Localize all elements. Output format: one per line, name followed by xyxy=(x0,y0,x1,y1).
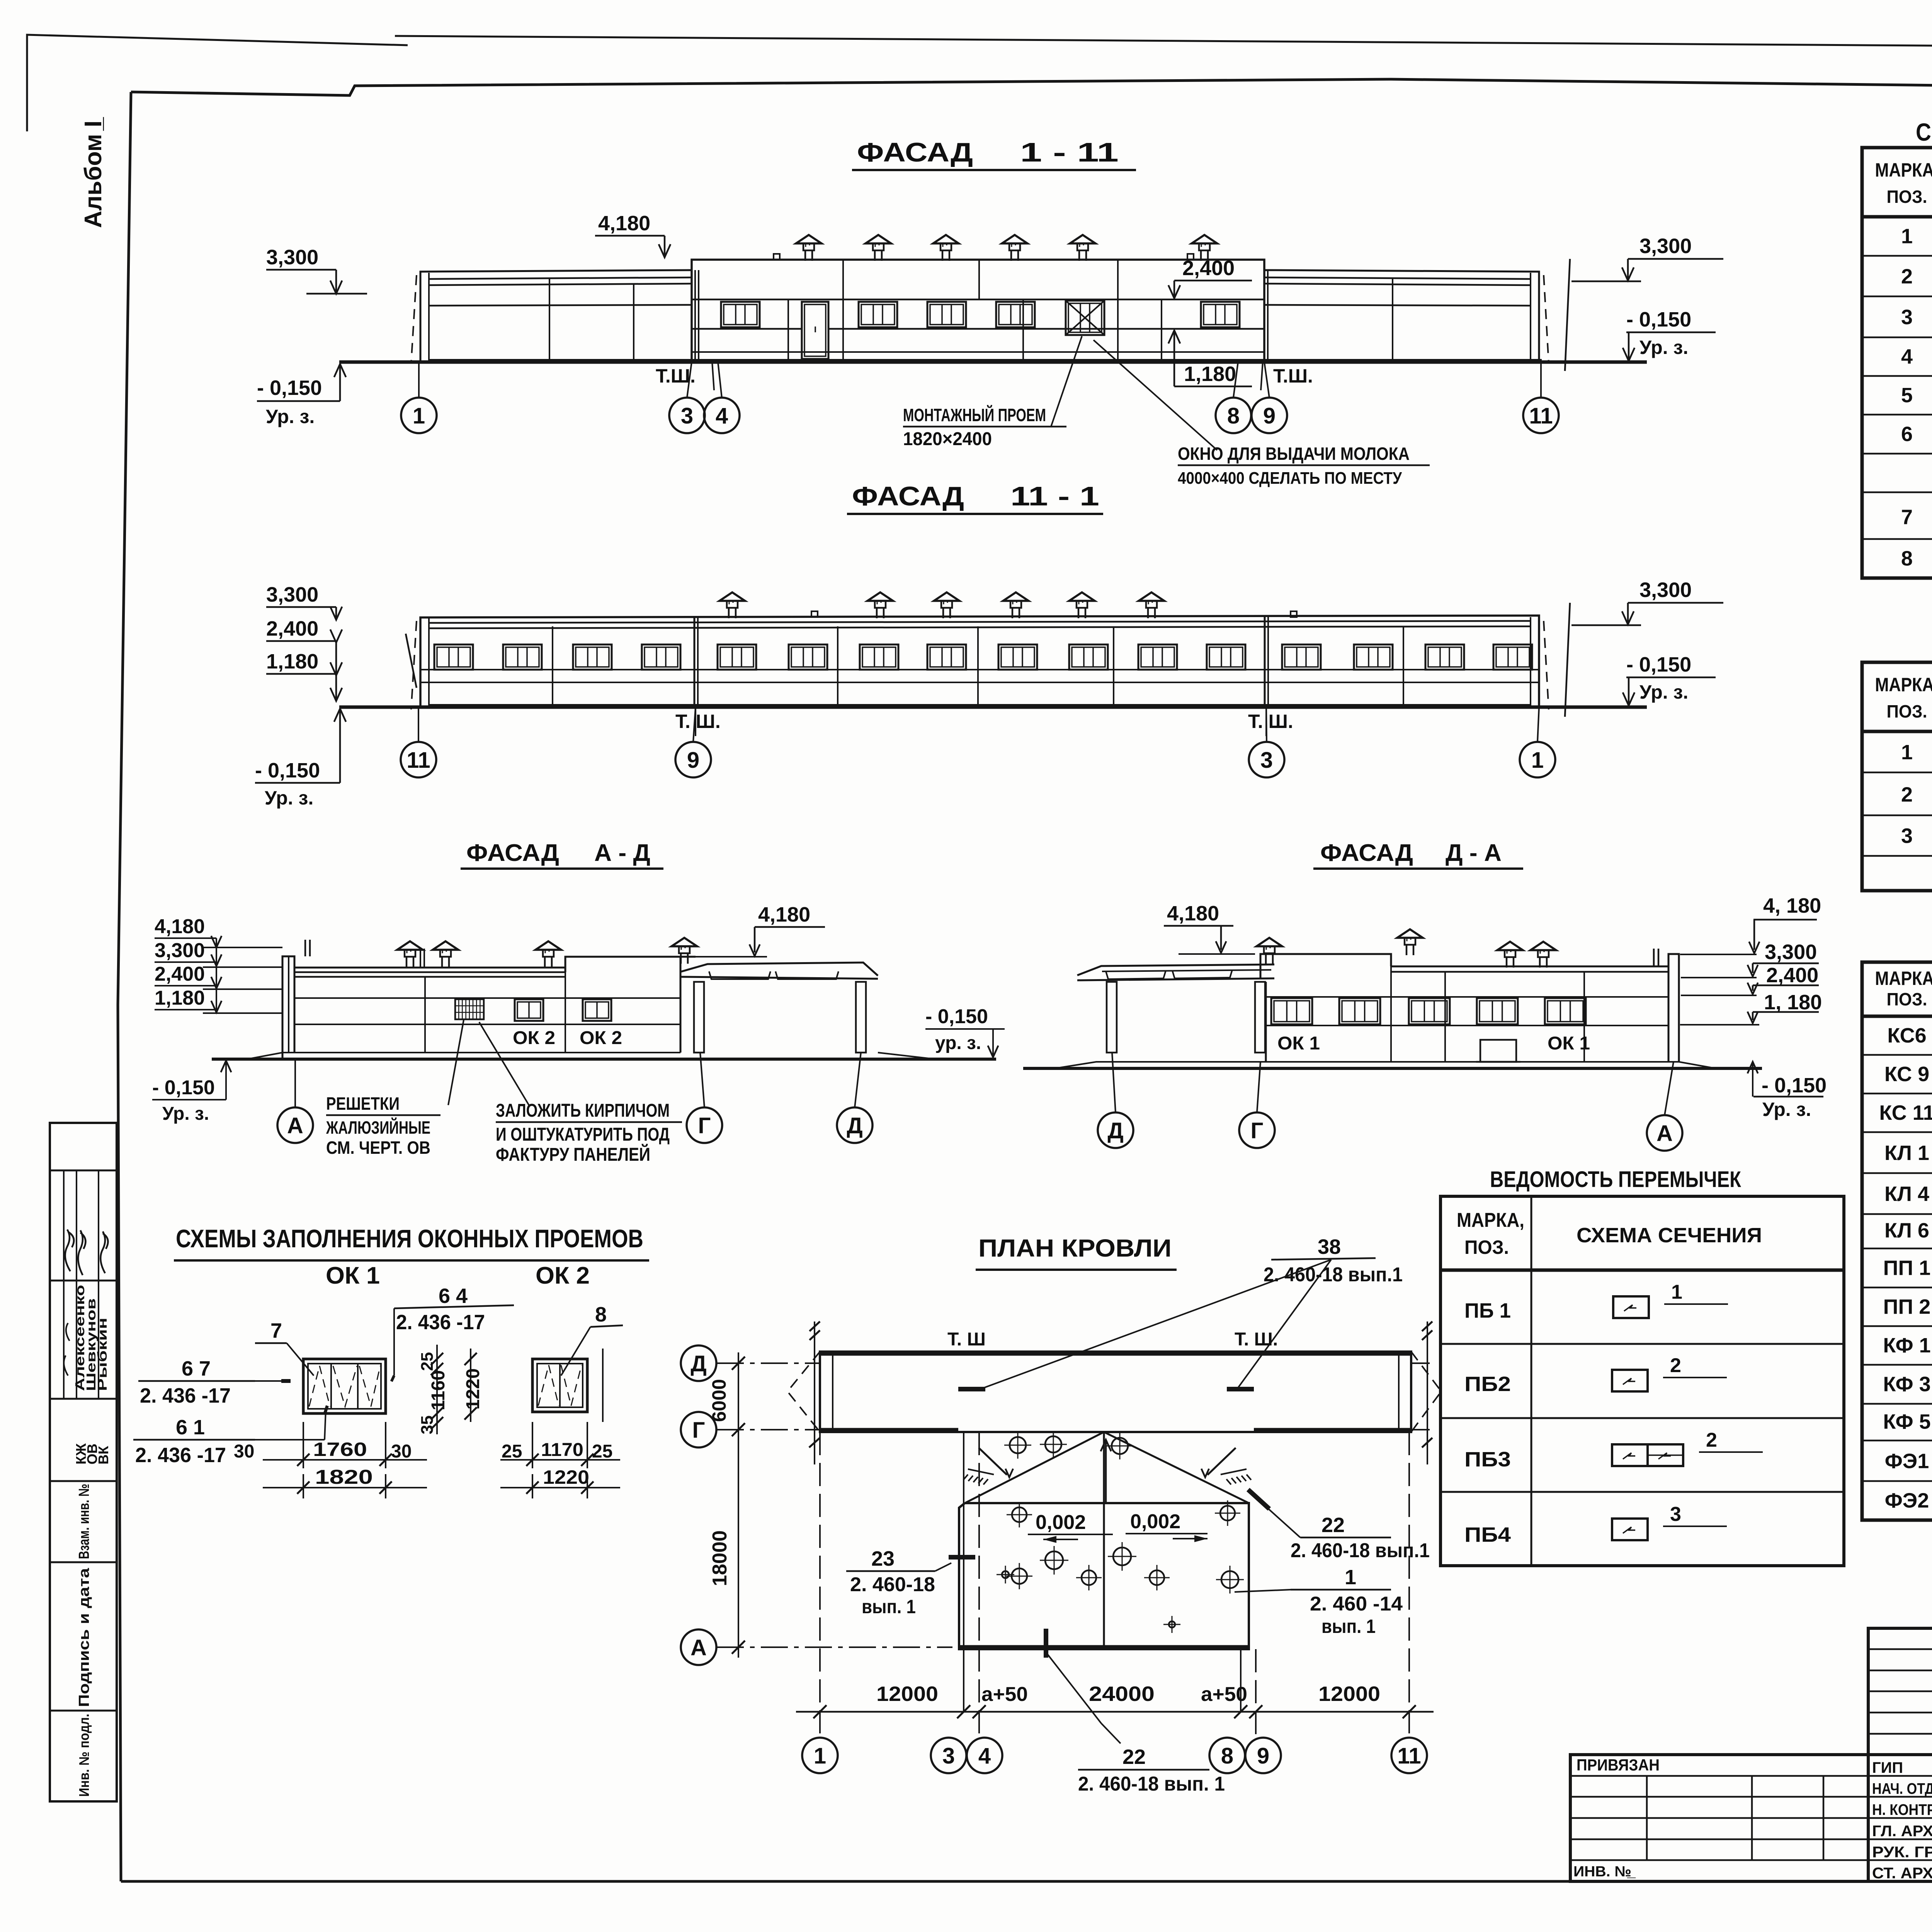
axis mark 11 xyxy=(1523,398,1559,433)
svg-text:А: А xyxy=(690,1635,707,1660)
svg-text:МАРКА,: МАРКА, xyxy=(1457,1209,1524,1231)
svg-text:Ур. з.: Ур. з. xyxy=(1762,1099,1811,1120)
facade A-D title underline xyxy=(461,867,663,870)
facade 1-11 central block sill line xyxy=(692,328,802,330)
svg-text:1: 1 xyxy=(1531,748,1544,773)
facade 11-1 window row xyxy=(434,645,473,670)
scheme OK2 opening marks xyxy=(538,1365,559,1406)
axis mark Д xyxy=(837,1107,872,1143)
svg-text:22: 22 xyxy=(1321,1514,1345,1537)
roof vent xyxy=(1200,250,1202,261)
facade 1-11 expansion joint lines (T.Sh.) xyxy=(694,270,696,362)
svg-text:Д: Д xyxy=(847,1113,862,1138)
svg-text:3: 3 xyxy=(942,1743,955,1769)
svg-text:СТ. АРХ.: СТ. АРХ. xyxy=(1872,1865,1932,1882)
svg-text:КС6: КС6 xyxy=(1887,1024,1926,1047)
svg-text:Д - А: Д - А xyxy=(1446,840,1502,866)
axis mark Г xyxy=(1239,1112,1275,1148)
svg-text:9: 9 xyxy=(1257,1743,1269,1769)
svg-text:3: 3 xyxy=(1670,1503,1681,1526)
svg-text:- 0,150: - 0,150 xyxy=(1626,308,1691,331)
facade 1-11 ground line xyxy=(339,361,1647,364)
facade A-D canopy left post xyxy=(694,982,704,1053)
svg-text:Г: Г xyxy=(692,1418,705,1443)
svg-text:1160: 1160 xyxy=(428,1370,449,1410)
facade A-D window OK2 no.1 xyxy=(515,999,543,1021)
scheme OK1 dim 1820 xyxy=(263,1487,427,1488)
facade A-D taller central part xyxy=(565,957,696,972)
svg-text:a+50: a+50 xyxy=(981,1683,1028,1706)
svg-text:А: А xyxy=(287,1113,303,1138)
svg-text:2: 2 xyxy=(1901,783,1913,806)
svg-text:Н. КОНТР.: Н. КОНТР. xyxy=(1872,1801,1932,1818)
svg-text:18000: 18000 xyxy=(709,1530,731,1586)
svg-text:ПБ4: ПБ4 xyxy=(1464,1523,1511,1546)
facade 1-11 central block panel joints xyxy=(842,260,844,360)
svg-text:6 4: 6 4 xyxy=(439,1284,468,1308)
svg-text:0,002: 0,002 xyxy=(1130,1510,1180,1533)
svg-text:4, 180: 4, 180 xyxy=(1763,894,1821,917)
scheme OK1 vertical dim chain 25/1160/35 xyxy=(436,1345,438,1434)
svg-text:1,180: 1,180 xyxy=(266,650,318,673)
svg-text:1170: 1170 xyxy=(541,1440,583,1460)
svg-text:ФЭ1: ФЭ1 xyxy=(1885,1449,1929,1473)
facade A-D wall joints xyxy=(294,997,680,999)
svg-text:4,180: 4,180 xyxy=(758,903,810,926)
facade A-D thin pipe stub xyxy=(420,949,421,967)
roof vent xyxy=(874,250,876,261)
svg-text:ФАСАД: ФАСАД xyxy=(466,840,559,866)
svg-text:ПЛАН КРОВЛИ: ПЛАН КРОВЛИ xyxy=(978,1234,1172,1262)
roof vent xyxy=(544,957,546,967)
svg-text:3: 3 xyxy=(1901,824,1913,847)
facade 1-11 central block lintel line xyxy=(692,299,1264,301)
table header row xyxy=(1862,1015,1932,1018)
roof plan drain hatch left xyxy=(979,1448,1007,1475)
svg-text:А - Д: А - Д xyxy=(594,840,650,866)
scheme OK1 opening marks xyxy=(309,1366,330,1406)
roof plan upper strip left gable (dashed) xyxy=(787,1352,820,1432)
svg-text:30: 30 xyxy=(234,1441,254,1462)
table header row xyxy=(1862,215,1932,219)
scheme OK2 vertical dim line xyxy=(602,1349,604,1422)
roof stub (facade 11-1) xyxy=(811,611,818,617)
svg-text:2,400: 2,400 xyxy=(266,617,318,640)
svg-text:24000: 24000 xyxy=(1089,1682,1155,1706)
scheme OK2 window box xyxy=(532,1359,587,1412)
svg-text:2. 460-18 вып. 1: 2. 460-18 вып. 1 xyxy=(1078,1773,1225,1795)
axis leader lines (facade 1-11) xyxy=(418,362,420,398)
svg-text:1220: 1220 xyxy=(543,1466,589,1488)
svg-text:8: 8 xyxy=(1221,1743,1233,1769)
roof vent xyxy=(406,957,408,967)
facade 1-11 central block outline xyxy=(692,260,1264,362)
facade A-D louver grille xyxy=(455,999,484,1019)
scheme OK2 dim 1220 xyxy=(500,1487,620,1488)
facade 1-11 central block base joint xyxy=(692,351,1264,353)
svg-text:МОНТАЖНЫЙ ПРОЕМ: МОНТАЖНЫЙ ПРОЕМ xyxy=(903,405,1046,425)
lintel schedule header separator xyxy=(1440,1269,1844,1272)
axis mark А xyxy=(277,1107,313,1143)
svg-text:1,180: 1,180 xyxy=(155,987,205,1009)
roof vent xyxy=(1010,250,1012,261)
svg-text:ОК 2: ОК 2 xyxy=(536,1262,590,1289)
facade 1-11 mounting opening window with cross xyxy=(1066,301,1104,335)
svg-text:ЖАЛЮЗИЙНЫЕ: ЖАЛЮЗИЙНЫЕ xyxy=(326,1117,430,1138)
svg-text:Ур. з.: Ур. з. xyxy=(265,787,313,809)
svg-text:2,400: 2,400 xyxy=(1766,964,1818,987)
svg-text:Г: Г xyxy=(1251,1118,1264,1143)
lintel schedule table frame xyxy=(1440,1196,1844,1566)
svg-text:НАЧ. ОТД.: НАЧ. ОТД. xyxy=(1872,1781,1932,1798)
svg-text:9: 9 xyxy=(1263,403,1276,429)
svg-text:6 7: 6 7 xyxy=(182,1357,211,1380)
svg-text:6 1: 6 1 xyxy=(176,1416,205,1439)
axis mark 3 xyxy=(669,398,705,433)
svg-text:38: 38 xyxy=(1318,1235,1341,1259)
svg-text:А: А xyxy=(1656,1121,1673,1146)
facade A-D ground line xyxy=(212,1058,996,1061)
svg-text:Рыбкин: Рыбкин xyxy=(95,1318,109,1391)
roof plan axis А dash-dot line xyxy=(717,1646,952,1648)
svg-text:22: 22 xyxy=(1122,1745,1146,1769)
axis mark 9 xyxy=(1245,1738,1281,1773)
facade 11-1 building outline xyxy=(420,616,1539,707)
svg-text:Ур. з.: Ур. з. xyxy=(1639,681,1688,703)
roof stub left xyxy=(774,254,780,260)
svg-text:8: 8 xyxy=(1901,547,1913,570)
axis mark Г xyxy=(687,1107,722,1143)
facade D-A small stack right xyxy=(1653,949,1655,966)
roof stub right xyxy=(1187,254,1194,260)
facade D-A canopy left post xyxy=(1107,982,1117,1053)
table rows xyxy=(1862,1054,1932,1056)
facade D-A canopy roof slab xyxy=(1077,964,1274,975)
facade 1-11 right wing corner break line xyxy=(1544,275,1549,363)
axis mark 8 xyxy=(1209,1738,1245,1773)
svg-text:КС 9: КС 9 xyxy=(1884,1063,1929,1086)
facade D-A right wall column xyxy=(1668,954,1679,1062)
roof vent xyxy=(1265,953,1267,964)
svg-text:11: 11 xyxy=(406,748,430,773)
window schemes title underline xyxy=(174,1259,649,1262)
sheet outer border top-left segment xyxy=(27,35,408,131)
svg-text:МАРКА,: МАРКА, xyxy=(1875,968,1932,989)
svg-text:6: 6 xyxy=(1901,423,1913,446)
svg-text:Ур. з.: Ур. з. xyxy=(266,406,315,427)
svg-text:1: 1 xyxy=(1901,741,1913,764)
svg-text:4,180: 4,180 xyxy=(1167,902,1219,925)
svg-text:ВК: ВК xyxy=(95,1446,111,1464)
svg-text:Ур. з.: Ур. з. xyxy=(162,1104,209,1124)
svg-text:КЛ 4: КЛ 4 xyxy=(1884,1182,1929,1206)
svg-text:МАРКА,: МАРКА, xyxy=(1875,674,1932,696)
axis leaders (facade A-D) xyxy=(294,1059,296,1107)
facade A-D window OK2 no.2 xyxy=(583,999,611,1021)
roof plan slope arrow up xyxy=(1105,1441,1107,1503)
svg-text:Подпись и дата: Подпись и дата xyxy=(76,1568,92,1707)
table rows xyxy=(1862,255,1932,257)
svg-text:3: 3 xyxy=(681,403,693,429)
svg-text:Альбом I̲: Альбом I̲ xyxy=(80,117,107,228)
facade D-A windows OK1 xyxy=(1271,998,1312,1024)
roof vent xyxy=(1012,608,1014,618)
axis mark 3 xyxy=(1249,742,1284,777)
svg-text:3,300: 3,300 xyxy=(1639,578,1692,602)
axis mark 11 xyxy=(1391,1738,1427,1773)
svg-text:ур. з.: ур. з. xyxy=(935,1033,981,1053)
svg-text:5: 5 xyxy=(1901,384,1913,407)
axis mark А xyxy=(681,1629,716,1665)
roof plan drain hatch right xyxy=(1207,1448,1236,1475)
svg-text:РЕШЕТКИ: РЕШЕТКИ xyxy=(326,1094,400,1114)
svg-text:11: 11 xyxy=(1529,403,1553,429)
svg-text:ФЭ2: ФЭ2 xyxy=(1885,1489,1929,1512)
svg-text:ОК 1: ОК 1 xyxy=(326,1262,380,1289)
svg-text:- 0,150: - 0,150 xyxy=(1762,1074,1827,1097)
svg-text:Д: Д xyxy=(1107,1118,1123,1143)
svg-text:ОК 2: ОК 2 xyxy=(513,1028,555,1048)
facade D-A title underline xyxy=(1313,867,1523,870)
svg-text:ГЛ. АРХ.: ГЛ. АРХ. xyxy=(1872,1823,1932,1840)
svg-text:СХЕМЫ ЗАПОЛНЕНИЯ ОКОННЫХ ПРОЕМ: СХЕМЫ ЗАПОЛНЕНИЯ ОКОННЫХ ПРОЕМОВ xyxy=(176,1224,643,1253)
svg-text:2. 460 -14: 2. 460 -14 xyxy=(1310,1593,1403,1615)
svg-text:- 0,150: - 0,150 xyxy=(1626,653,1691,676)
left flat table (Привязан) xyxy=(1570,1755,1868,1881)
axis mark 3 xyxy=(931,1738,966,1773)
drawing frame bottom edge xyxy=(121,1880,1932,1883)
facade A-D canopy roof slab xyxy=(680,963,878,976)
scheme OK2 horizontal dims 25/1170/25 xyxy=(532,1422,533,1468)
svg-text:2,400: 2,400 xyxy=(1182,257,1235,280)
facade D-A building body xyxy=(1265,982,1267,1062)
svg-text:1: 1 xyxy=(413,403,425,429)
svg-text:12000: 12000 xyxy=(1318,1682,1380,1706)
svg-text:Взам. инв. №: Взам. инв. № xyxy=(76,1484,92,1559)
facade 1-11 left wing panel joints xyxy=(549,277,550,360)
roof vent xyxy=(942,608,944,618)
svg-text:ЗАЛОЖИТЬ КИРПИЧОМ: ЗАЛОЖИТЬ КИРПИЧОМ xyxy=(496,1100,670,1121)
svg-text:Г: Г xyxy=(698,1113,711,1138)
facade 1-11 right wing outline xyxy=(1264,270,1539,362)
svg-text:7: 7 xyxy=(270,1319,282,1342)
facade 1-11 window OK1 no.3 xyxy=(927,302,966,327)
svg-text:25: 25 xyxy=(502,1441,522,1462)
facade D-A canopy right post xyxy=(1255,982,1265,1053)
svg-text:ПРИВЯЗАН: ПРИВЯЗАН xyxy=(1577,1756,1660,1774)
facade 1-11 door block xyxy=(802,302,828,359)
svg-text:ПБ 1: ПБ 1 xyxy=(1464,1299,1511,1322)
roof vent xyxy=(441,957,443,967)
roof vent xyxy=(1147,608,1149,618)
svg-text:Т. Ш: Т. Ш xyxy=(947,1329,986,1350)
roof plan central block outline xyxy=(959,1503,1249,1649)
svg-text:Т.Ш.: Т.Ш. xyxy=(1273,365,1313,387)
roof plan upper strip outline xyxy=(820,1352,1411,1432)
roof vent xyxy=(1078,250,1080,261)
svg-text:2,400: 2,400 xyxy=(155,963,205,985)
roof plan valley ticks xyxy=(958,1387,985,1391)
svg-text:1,180: 1,180 xyxy=(1184,362,1236,386)
svg-text:2: 2 xyxy=(1706,1429,1717,1451)
roof plan bottom dimension line xyxy=(796,1711,1434,1713)
svg-text:3: 3 xyxy=(1901,306,1913,329)
roof vent xyxy=(1506,957,1508,968)
axis mark 8 xyxy=(1216,398,1251,433)
svg-text:3: 3 xyxy=(1260,748,1273,773)
roof plan vertical dim line 6000/18000 xyxy=(738,1352,739,1658)
svg-text:- 0,150: - 0,150 xyxy=(152,1077,215,1099)
facade A-D canopy right post xyxy=(856,982,866,1053)
table rows xyxy=(1862,772,1932,774)
axis mark 1 xyxy=(1520,742,1555,777)
lintel schedule column divider xyxy=(1531,1196,1532,1566)
svg-text:1220: 1220 xyxy=(463,1368,483,1410)
axis mark 11 xyxy=(401,742,436,777)
svg-text:25: 25 xyxy=(592,1441,612,1462)
facade 1-11 left wing corner break line xyxy=(411,275,417,363)
svg-text:4000×400 СДЕЛАТЬ ПО МЕСТУ: 4000×400 СДЕЛАТЬ ПО МЕСТУ xyxy=(1178,469,1402,488)
facade D-A ground line xyxy=(1023,1067,1762,1070)
roof vent xyxy=(942,250,944,261)
svg-text:1: 1 xyxy=(1345,1566,1356,1589)
svg-text:3,300: 3,300 xyxy=(1639,235,1692,258)
axis leaders (facade D-A) xyxy=(1112,1053,1116,1112)
svg-text:ПП 2: ПП 2 xyxy=(1883,1295,1931,1318)
facade D-A wall joints xyxy=(1266,996,1668,998)
svg-text:Инв. № подл.: Инв. № подл. xyxy=(76,1714,92,1797)
facade 1-11 title underline xyxy=(852,169,1136,171)
axis mark 4 xyxy=(704,398,740,433)
svg-text:СМ. ЧЕРТ. ОВ: СМ. ЧЕРТ. ОВ xyxy=(326,1138,430,1158)
roof vent xyxy=(1539,957,1541,968)
svg-text:Т. Ш.: Т. Ш. xyxy=(1248,711,1293,732)
svg-text:КЛ 6: КЛ 6 xyxy=(1884,1219,1929,1242)
svg-text:3,300: 3,300 xyxy=(266,583,318,606)
svg-text:И ОШТУКАТУРИТЬ ПОД: И ОШТУКАТУРИТЬ ПОД xyxy=(496,1124,670,1145)
facade D-A door with stoop xyxy=(1480,1040,1516,1062)
table frame xyxy=(1862,962,1932,1520)
svg-text:3,300: 3,300 xyxy=(155,939,205,962)
axis mark 1 xyxy=(802,1738,838,1773)
axis leaders (facade 11-1) xyxy=(418,707,419,742)
facade A-D small stack on parapet xyxy=(304,940,306,956)
svg-text:СХЕМА СЕЧЕНИЯ: СХЕМА СЕЧЕНИЯ xyxy=(1577,1224,1762,1247)
facade A-D left wall column xyxy=(282,956,294,1059)
axis mark Д xyxy=(681,1345,716,1381)
svg-text:1820: 1820 xyxy=(315,1466,373,1488)
svg-text:ИНВ. №̲: ИНВ. №̲ xyxy=(1573,1864,1636,1880)
facade 1-11 window OK1 no.2 xyxy=(859,302,897,327)
scheme OK1 window box xyxy=(303,1359,386,1413)
svg-text:МАРКА,: МАРКА, xyxy=(1875,159,1932,181)
roof plan top break marks xyxy=(810,1321,820,1331)
dim stack right: -0,150 Ур.З. xyxy=(1748,1062,1758,1073)
roof plan axis extension lines xyxy=(819,1432,821,1738)
roof plan vent circles xyxy=(1010,1437,1026,1453)
facade 1-11 window OK1 no.1 xyxy=(721,302,760,327)
facade 1-11 left wing outline xyxy=(420,270,692,362)
svg-text:12000: 12000 xyxy=(876,1682,938,1706)
svg-text:ФАСАД: ФАСАД xyxy=(1320,840,1413,866)
roof plan central block hips xyxy=(965,1432,1104,1503)
svg-text:КФ 1: КФ 1 xyxy=(1883,1334,1930,1357)
title block small grid (upper left) xyxy=(1868,1628,1932,1755)
roof vent xyxy=(680,953,682,964)
facade 11-1 panel joints xyxy=(552,626,553,705)
svg-text:4,180: 4,180 xyxy=(155,915,205,938)
svg-text:23: 23 xyxy=(871,1547,895,1570)
svg-text:2. 460-18: 2. 460-18 xyxy=(850,1573,935,1596)
axis mark 9 xyxy=(1252,398,1287,433)
scheme OK1 vertical dim 1220 xyxy=(470,1349,471,1422)
lintel schedule row lines xyxy=(1440,1343,1844,1345)
facade 11-1 ground line xyxy=(339,706,1647,709)
svg-text:- 0,150: - 0,150 xyxy=(257,376,322,400)
facade 11-1 top band lines xyxy=(429,621,1531,623)
facade D-A canopy roof panels xyxy=(1106,971,1166,979)
svg-text:ФАКТУРУ ПАНЕЛЕЙ: ФАКТУРУ ПАНЕЛЕЙ xyxy=(496,1144,650,1165)
facade 1-11 window OK1 no.4 xyxy=(996,302,1035,327)
axis mark 9 xyxy=(675,742,711,777)
svg-text:вып. 1: вып. 1 xyxy=(1321,1616,1376,1637)
svg-text:Т. Ш.: Т. Ш. xyxy=(1235,1329,1278,1350)
facade D-A central taller block xyxy=(1260,954,1391,979)
svg-text:11 - 1: 11 - 1 xyxy=(1010,481,1099,511)
svg-text:ОК 1: ОК 1 xyxy=(1277,1033,1320,1054)
svg-text:2. 436 -17: 2. 436 -17 xyxy=(140,1384,231,1407)
svg-text:ОК 2: ОК 2 xyxy=(580,1028,622,1048)
svg-text:КФ 3: КФ 3 xyxy=(1883,1373,1930,1396)
svg-text:4: 4 xyxy=(716,403,728,429)
svg-text:ПБ3: ПБ3 xyxy=(1464,1448,1511,1471)
table header row xyxy=(1862,730,1932,733)
roof vent xyxy=(804,250,806,261)
svg-text:4: 4 xyxy=(1901,345,1913,368)
svg-text:4: 4 xyxy=(978,1743,991,1769)
axis mark 4 xyxy=(967,1738,1002,1773)
svg-text:2. 436 -17: 2. 436 -17 xyxy=(135,1444,226,1467)
facade A-D canopy roof panels xyxy=(709,971,770,979)
svg-text:2: 2 xyxy=(1901,265,1913,288)
axis mark Д xyxy=(1098,1112,1133,1148)
facade 11-1 corner break lines xyxy=(411,621,417,709)
svg-text:Д: Д xyxy=(690,1351,706,1376)
sheet outer border top-right segment xyxy=(395,36,1932,51)
scheme OK1 horizontal dims 30/1760/30 xyxy=(303,1422,304,1468)
svg-text:ОК 1: ОК 1 xyxy=(1548,1033,1590,1054)
drawing frame left edge xyxy=(118,92,131,1881)
drawing frame top edge xyxy=(131,79,1932,95)
facade 1-11 right wing panel joints xyxy=(1392,277,1393,360)
roof plan axis Д dash-dot line xyxy=(717,1362,820,1364)
svg-text:6000: 6000 xyxy=(708,1379,730,1422)
svg-text:11: 11 xyxy=(1397,1743,1421,1769)
table frame xyxy=(1862,148,1932,578)
stamp signatures column xyxy=(65,1230,74,1271)
svg-text:1, 180: 1, 180 xyxy=(1764,991,1822,1014)
svg-text:ФАСАД: ФАСАД xyxy=(857,137,973,167)
svg-text:ПОЗ.: ПОЗ. xyxy=(1464,1236,1509,1258)
svg-text:1: 1 xyxy=(1901,225,1913,248)
facade 11-1 expansion joint lines xyxy=(694,617,696,707)
svg-text:4,180: 4,180 xyxy=(598,212,650,235)
facade 11-1 lower joint line xyxy=(420,682,1539,683)
svg-text:ГИП: ГИП xyxy=(1872,1759,1903,1776)
svg-text:ПБ2: ПБ2 xyxy=(1464,1372,1511,1396)
axis mark А xyxy=(1647,1115,1682,1151)
svg-text:2: 2 xyxy=(1670,1354,1681,1377)
